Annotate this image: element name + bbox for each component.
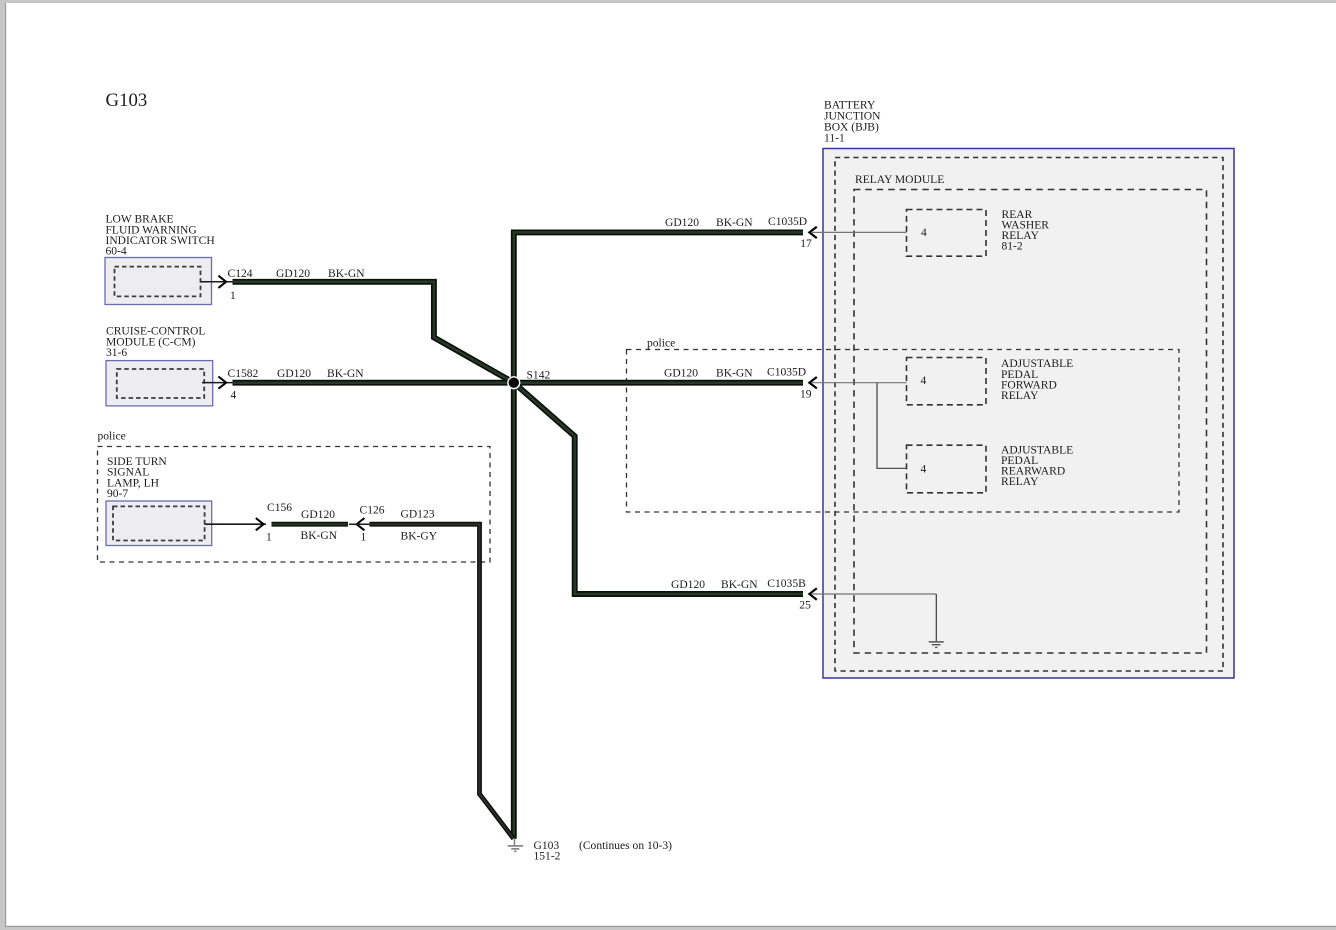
svg-text:BK-GN: BK-GN	[327, 368, 364, 380]
thin wire from C1035B pin25 to BJB internal ground	[812, 593, 936, 595]
BJB internal ground drop wire	[935, 594, 937, 641]
cruise-control module inner dashed box	[117, 369, 204, 398]
connector arrow C156	[256, 518, 264, 530]
page margin strip left	[0, 0, 5, 930]
side turn signal lamp box	[106, 501, 212, 546]
police dashed box (adjustable pedal relays)	[627, 350, 1180, 513]
svg-text:C1035D: C1035D	[767, 367, 806, 379]
wire lead from low brake switch	[201, 281, 234, 283]
connector arrow C126	[357, 518, 365, 530]
svg-text:police: police	[647, 338, 675, 350]
svg-text:1: 1	[266, 531, 272, 543]
svg-text:4: 4	[921, 227, 927, 239]
svg-text:C156: C156	[267, 502, 292, 514]
svg-text:BK-GN: BK-GN	[716, 217, 753, 229]
svg-text:S142: S142	[527, 369, 551, 381]
svg-text:17: 17	[800, 238, 812, 250]
wire GD120 BK-GN segment (C156 to C126)	[272, 522, 349, 527]
svg-text:GD120: GD120	[301, 509, 335, 521]
branch wire to adjustable pedal rearward relay	[877, 383, 907, 469]
adjustable pedal rearward relay box	[907, 445, 987, 493]
battery junction box (BJB) outline	[823, 149, 1234, 679]
BJB inner dashed boundary	[835, 158, 1223, 672]
svg-text:BK-GN: BK-GN	[721, 579, 758, 591]
svg-text:(Continues on 10-3): (Continues on 10-3)	[579, 840, 672, 852]
BJB internal ground symbol	[929, 642, 944, 648]
svg-text:RELAY MODULE: RELAY MODULE	[855, 174, 944, 186]
wire GD120 BK-GN from splice S142 to C1035B pin 25	[514, 383, 803, 594]
thin wire from C1035D pin19 to adjustable pedal forward relay	[812, 382, 907, 384]
thin wire C126 to GD123	[349, 523, 370, 525]
ground G103 symbol	[508, 838, 524, 851]
svg-text:GD120: GD120	[665, 217, 699, 229]
low brake fluid warning indicator switch box	[105, 258, 212, 305]
svg-text:1: 1	[361, 532, 367, 544]
police dashed box (side turn signal lamp)	[98, 447, 491, 563]
connector arrow C124	[218, 276, 226, 288]
thin wire from C1035D pin17 to rear washer relay	[812, 231, 907, 233]
svg-text:GD120: GD120	[277, 368, 311, 380]
connector arrow C1035D pin19	[809, 377, 816, 388]
svg-text:GD123: GD123	[401, 509, 435, 521]
connector arrow C1582	[218, 377, 226, 389]
relay module dashed box	[854, 190, 1207, 654]
page margin strip top	[0, 0, 1336, 3]
svg-text:C1035D: C1035D	[768, 216, 807, 228]
wire GD120 BK-GN vertical trunk from C1035D pin17 corner down to ground G103	[514, 232, 803, 838]
svg-text:GD120: GD120	[664, 367, 698, 379]
wire GD120 BK-GN from C124 to splice S142	[233, 282, 514, 383]
wire GD123 BK-GY from C126 down to ground G103	[370, 524, 514, 839]
page edge line bottom	[5, 926, 1336, 927]
wire lead from side turn signal lamp	[205, 523, 266, 525]
low brake switch inner dashed box	[115, 267, 201, 297]
svg-text:C124: C124	[228, 268, 253, 280]
svg-text:1: 1	[230, 290, 236, 302]
svg-text:G103151-2: G103151-2	[534, 840, 561, 863]
svg-text:BK-GN: BK-GN	[716, 367, 753, 379]
svg-text:G103: G103	[106, 90, 148, 111]
svg-text:4: 4	[921, 375, 927, 387]
wire GD120 BK-GN from C1582 through splice to C1035D pin 19	[233, 380, 804, 386]
splice S142	[507, 376, 520, 389]
svg-text:BK-GN: BK-GN	[328, 268, 365, 280]
connector arrow C1035D pin17	[809, 227, 816, 238]
cruise-control module box	[106, 361, 213, 406]
svg-text:BK-GN: BK-GN	[301, 530, 338, 542]
rear washer relay box	[907, 210, 987, 257]
side turn signal lamp inner dashed box	[113, 506, 205, 540]
connector arrow C1035B pin25	[809, 588, 816, 599]
wire lead from cruise-control module	[202, 382, 233, 384]
svg-text:4: 4	[921, 463, 927, 475]
svg-text:C1035B: C1035B	[767, 578, 806, 590]
svg-text:GD120: GD120	[671, 579, 705, 591]
svg-text:police: police	[98, 431, 126, 443]
svg-text:25: 25	[799, 599, 811, 611]
svg-text:C126: C126	[360, 505, 385, 517]
page margin strip bottom	[0, 927, 1336, 930]
svg-text:4: 4	[231, 390, 237, 402]
adjustable pedal forward relay box	[907, 358, 987, 405]
svg-text:19: 19	[800, 389, 812, 401]
svg-text:BK-GY: BK-GY	[401, 530, 438, 542]
svg-text:C1582: C1582	[228, 368, 259, 380]
svg-text:GD120: GD120	[276, 268, 310, 280]
page edge line left	[5, 3, 6, 927]
